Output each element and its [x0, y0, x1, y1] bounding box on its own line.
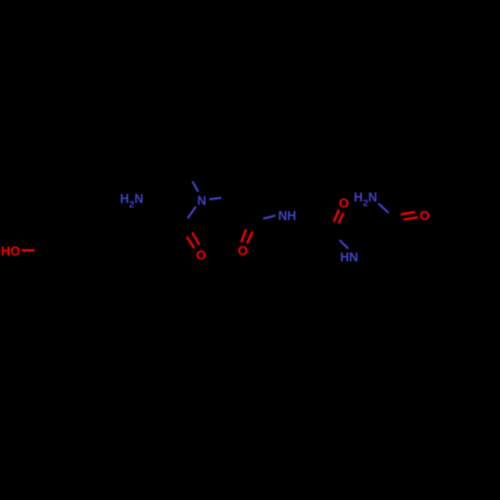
wire N-C bond of terminal amide (blue half) [378, 204, 388, 213]
wire N1-Calpha bond (blue half) [209, 198, 221, 200]
svg-text:O: O [339, 196, 349, 211]
wire N1-C(=O) amide bond (blue half) [188, 207, 196, 219]
wire C-N bond to amide HN (blue half) [340, 240, 349, 249]
double bond C=O of Phe3 carbonyl (red halves) [334, 210, 339, 222]
svg-text:HO: HO [1, 243, 20, 258]
wire O-C bond from HO to phenyl ring [22, 249, 35, 251]
double bond C=O of terminal amide (red halves) [401, 212, 415, 214]
capacitor-like double bond C=O of Tyr carbonyl (red halves) [187, 237, 195, 249]
wire N1-Cdelta bond (upper half, blue) [192, 181, 198, 192]
wire C-N bond to amide NH (blue half) [263, 216, 275, 219]
svg-text:O: O [196, 247, 206, 262]
svg-text:O: O [238, 243, 248, 258]
svg-text:N: N [197, 194, 206, 208]
double bond C=O of Pro carbonyl (red halves) [241, 229, 246, 242]
svg-text:HN: HN [340, 250, 358, 264]
svg-text:O: O [420, 208, 430, 223]
svg-text:NH: NH [278, 209, 296, 223]
